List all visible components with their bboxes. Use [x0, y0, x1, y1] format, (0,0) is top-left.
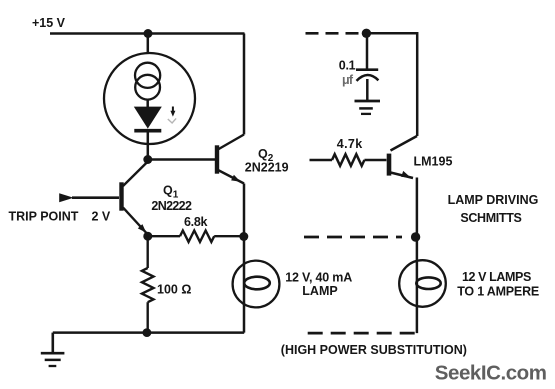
svg-text:2N2219: 2N2219	[245, 161, 289, 175]
resistor R2 100 ohm	[142, 236, 154, 332]
wire top rail	[50, 32, 245, 35]
photo device envelope circle	[104, 53, 195, 144]
svg-text:TRIP POINT: TRIP POINT	[9, 210, 79, 224]
lamp L2	[399, 260, 446, 307]
transistor Q1 2N2222	[122, 162, 148, 235]
svg-text:LAMP DRIVING: LAMP DRIVING	[448, 193, 539, 207]
node F	[411, 232, 420, 241]
node B	[143, 232, 152, 241]
ground (left)	[41, 353, 65, 366]
wire LM195 emitter down	[416, 178, 419, 334]
svg-text:100 Ω: 100 Ω	[157, 283, 191, 297]
wire rail to ground	[51, 333, 54, 354]
wire node C down to bottom rail	[243, 237, 246, 333]
ground (capacitor)	[355, 101, 381, 114]
lamp L1	[233, 261, 280, 308]
svg-text:4.7k: 4.7k	[337, 137, 363, 151]
svg-text:SeekIC.com: SeekIC.com	[435, 361, 547, 384]
wire LED to node A	[147, 131, 150, 160]
svg-text:2N2222: 2N2222	[151, 199, 192, 213]
svg-text:6.8k: 6.8k	[184, 215, 207, 229]
wire rail to photo device	[147, 34, 150, 55]
svg-text:TO 1 AMPERE: TO 1 AMPERE	[457, 285, 539, 299]
light arrow	[168, 107, 176, 124]
current source symbol (two circles)	[135, 63, 160, 100]
resistor R1 6.8k	[148, 231, 244, 242]
wire input to Q1 base	[72, 196, 119, 199]
svg-text:0.1: 0.1	[339, 58, 356, 72]
svg-text:μf: μf	[342, 73, 354, 87]
svg-text:LAMP: LAMP	[302, 284, 337, 298]
node E	[362, 29, 371, 38]
node A	[143, 155, 152, 164]
resistor R3 4.7k	[310, 154, 387, 166]
wire Q2 collector to rail	[243, 34, 246, 135]
capacitor C1	[356, 33, 378, 101]
node top-rail junction	[144, 29, 153, 38]
dashed wire middle right	[304, 236, 402, 239]
svg-text:2 V: 2 V	[92, 210, 111, 224]
node C	[239, 232, 248, 241]
wire Q2 emitter down	[243, 184, 246, 238]
dashed wire top right	[306, 32, 360, 35]
wire node E to corner and down	[366, 33, 417, 136]
wire source to LED	[146, 100, 149, 108]
transistor Q2 2N2219	[217, 135, 244, 184]
dashed wire bottom right	[308, 332, 417, 335]
svg-text:12 V LAMPS: 12 V LAMPS	[462, 270, 531, 284]
svg-text:SCHMITTS: SCHMITTS	[460, 211, 521, 225]
node D bottom rail junction	[143, 328, 152, 337]
wire bottom rail	[53, 331, 244, 334]
input arrow (trip point)	[59, 193, 73, 202]
transistor U1 LM195	[389, 136, 417, 178]
svg-text:(HIGH POWER SUBSTITUTION): (HIGH POWER SUBSTITUTION)	[281, 343, 467, 357]
LED D1	[134, 107, 162, 131]
svg-text:+15 V: +15 V	[32, 16, 66, 30]
wire node A to Q2 base	[148, 158, 215, 161]
svg-text:12 V, 40 mA: 12 V, 40 mA	[285, 270, 352, 284]
svg-text:LM195: LM195	[414, 155, 453, 169]
